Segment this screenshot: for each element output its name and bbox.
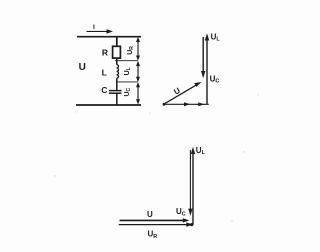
phasor1 axis I [163,102,209,106]
tick node R-L [115,60,138,62]
svg-text:UL: UL [124,67,132,75]
svg-text:C: C [101,85,107,95]
wire between R and L [116,58,118,65]
svg-text:U: U [79,62,86,73]
dim arrow UR (circuit) [127,37,140,61]
tick node L-C [116,81,138,83]
resistor R [113,46,121,58]
phasor2 vector UL [191,146,206,225]
current arrow I [87,24,114,34]
dim arrow UL (circuit) [124,61,140,82]
dim arrow UC (circuit) [124,82,140,104]
phasor2 vector U [120,210,190,223]
svg-text:I: I [93,24,95,31]
wire below C [116,94,118,105]
phasor1 vector U [164,82,202,104]
wire between L and C [116,78,118,90]
svg-text:UC: UC [124,87,132,96]
phasor2 vector UR [119,222,193,240]
inductor L [117,65,119,79]
svg-text:U: U [147,210,153,219]
phasor1 vector UC [201,37,219,85]
wire top rail [77,36,141,38]
node corner junction [190,223,193,226]
svg-text:UR: UR [127,46,135,55]
wire branch top [116,37,118,47]
phasor1 vector UL [205,32,221,104]
svg-text:L: L [102,68,107,78]
wire bottom rail [76,104,141,106]
phasor2 vector UC [176,150,193,217]
svg-text:R: R [102,47,108,57]
capacitor C [109,91,122,94]
